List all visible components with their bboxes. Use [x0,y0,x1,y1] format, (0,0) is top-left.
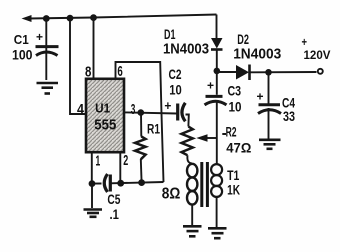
wire C2 to R2 [186,115,189,127]
svg-text:C1: C1 [14,32,29,47]
wire ground stub bottom-left [91,184,93,208]
resistor R2 zigzag [182,127,193,156]
wire bottom rail middle [110,182,163,183]
node junction dot B (pin4 tap) [67,15,74,22]
node junction dot pin1/gnd [89,180,96,187]
capacitor C2 [164,99,185,121]
capacitor C5 [104,174,110,192]
wire R2 to T1 primary [187,155,192,163]
wire pin 2 [119,152,121,183]
svg-text:R1: R1 [147,122,160,137]
wire C1 branch [45,19,47,81]
svg-text:4: 4 [77,101,85,118]
svg-text:6: 6 [117,63,122,80]
svg-text:10: 10 [229,99,242,115]
wire top rail to D1 [216,15,218,39]
capacitor C4 [257,90,282,114]
ground below C4 [259,140,281,149]
svg-text:+: + [36,30,43,44]
node junction dot C (pin8 tap) [90,14,97,21]
svg-text:555: 555 [94,117,116,134]
svg-text:8Ω: 8Ω [162,185,181,202]
wire R1 bottom [140,159,143,183]
svg-text:2: 2 [123,152,128,169]
arrow left terminal [22,15,32,22]
svg-text:C3: C3 [228,84,242,99]
svg-text:1N4003: 1N4003 [233,47,281,63]
svg-text:120V: 120V [304,48,331,62]
svg-text:10: 10 [169,82,182,98]
node junction dot C4 tap [265,69,272,76]
transformer T1 secondary coil (right) [211,164,222,197]
svg-text:+: + [164,99,171,113]
svg-text:100: 100 [12,47,33,63]
wire C3 branch [216,72,218,95]
wire pin 3 output [124,112,177,113]
svg-text:C5: C5 [107,192,120,207]
svg-text:.1: .1 [110,206,120,222]
svg-text:R2: R2 [226,124,237,139]
node junction dot A (C1 tap) [43,15,50,22]
wire pin 4 branch [70,18,86,114]
wire pin 1 [91,152,93,183]
capacitor C1 [36,30,59,56]
svg-text:1: 1 [96,153,101,170]
wire pin 6 net [116,62,164,182]
svg-text:1K: 1K [227,182,240,198]
resistor R1 zigzag [135,136,146,159]
svg-text:C2: C2 [169,67,182,82]
svg-text:+: + [302,35,308,49]
diode D1 [211,38,223,72]
svg-text:+: + [257,90,264,104]
transformer T1 primary coil (left) [187,164,197,205]
svg-text:1N4003: 1N4003 [163,42,209,58]
op-amp/timer U1 555 box [86,79,124,152]
wire C3 to wiper and T1 secondary [216,101,218,164]
node junction dot D1/D2 [214,68,221,75]
wire R1 top [140,113,142,137]
wiper arrow R2 [196,134,217,141]
wire stub tick at R2 label [222,133,226,135]
wire T1 primary to ground [191,205,193,225]
transformer T1 core [202,162,208,207]
capacitor C3 [205,79,227,105]
wire bottom rail left [92,183,102,185]
diode D2 [236,65,250,81]
wire C4 branch [268,72,270,103]
svg-text:+: + [207,79,214,93]
node junction dot R1 bottom [138,179,145,186]
node junction dot pin2 [117,180,124,187]
svg-text:47Ω: 47Ω [226,140,251,156]
wire top rail [29,15,217,19]
ground below C1 [37,83,59,94]
wire C4 to ground [268,108,270,139]
svg-text:3: 3 [131,101,136,118]
svg-text:T1: T1 [227,167,239,183]
wire D2 to terminal [250,71,317,73]
ground below T1 primary [183,226,202,236]
wire output rail [217,71,236,73]
ground below T1 secondary [208,228,227,238]
svg-text:D1: D1 [164,26,176,42]
terminal 120V output circle [318,69,323,74]
wire pin 8 branch [93,18,95,79]
node junction dot pin3/R1 [138,109,145,116]
wire T1 secondary to ground [216,197,218,227]
ground bottom-left [84,210,103,217]
svg-text:U1: U1 [95,101,110,116]
svg-text:D2: D2 [237,31,249,47]
svg-text:33: 33 [283,108,295,124]
